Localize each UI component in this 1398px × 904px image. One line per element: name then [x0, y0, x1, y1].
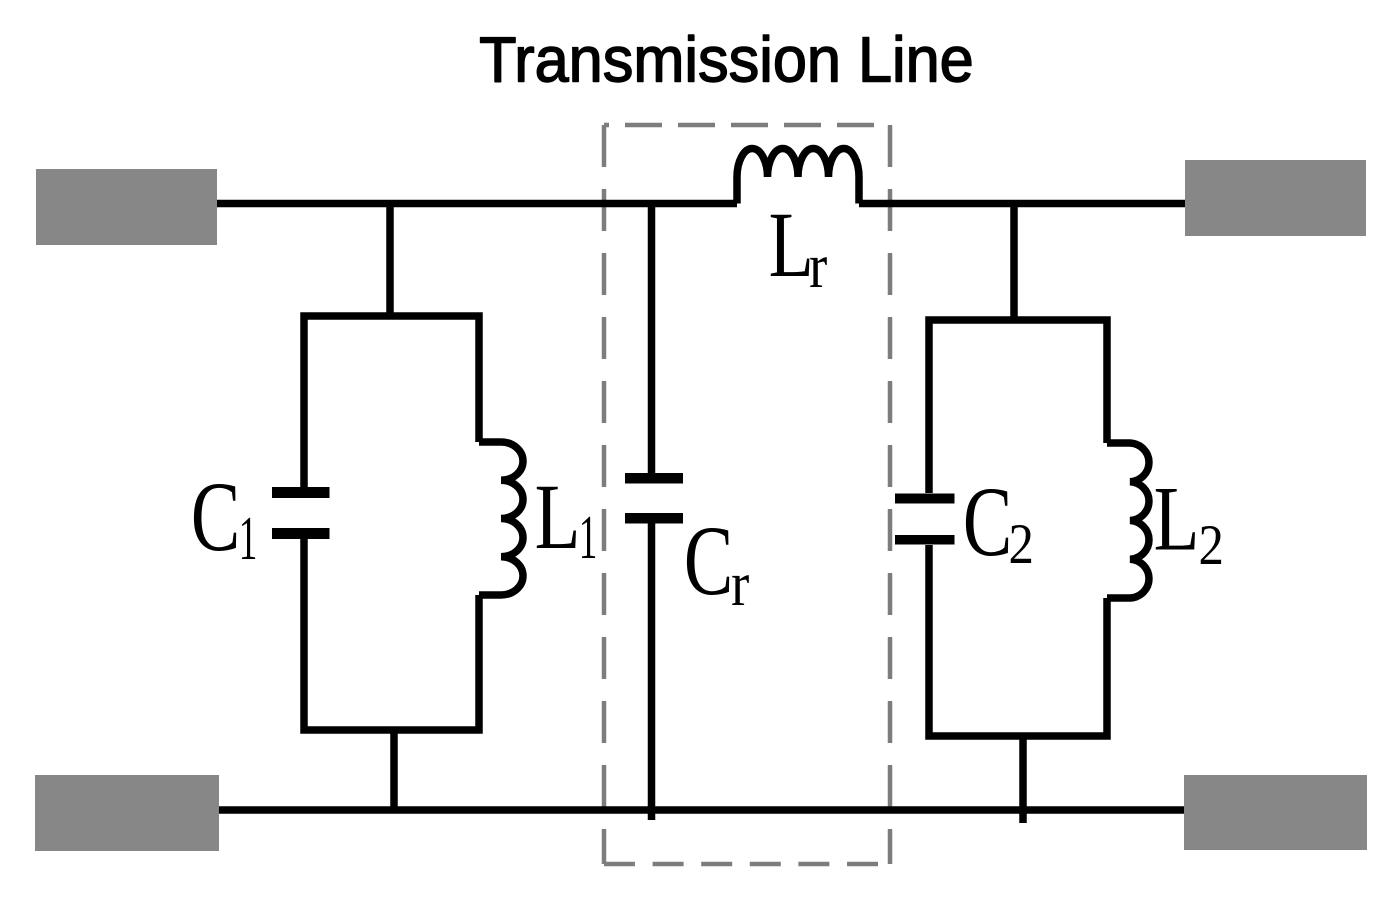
svg-text:L: L — [1154, 468, 1200, 570]
svg-text:C: C — [684, 506, 733, 616]
svg-text:L: L — [535, 467, 581, 569]
svg-text:C: C — [191, 462, 240, 572]
svg-text:1: 1 — [579, 503, 598, 572]
svg-text:1: 1 — [239, 504, 258, 573]
svg-text:2: 2 — [1009, 512, 1034, 575]
svg-text:2: 2 — [1199, 513, 1224, 576]
svg-text:r: r — [809, 230, 827, 301]
svg-text:C: C — [963, 467, 1012, 577]
svg-text:L: L — [769, 194, 814, 297]
svg-text:r: r — [731, 548, 749, 619]
svg-text:Transmission Line: Transmission Line — [479, 25, 974, 96]
